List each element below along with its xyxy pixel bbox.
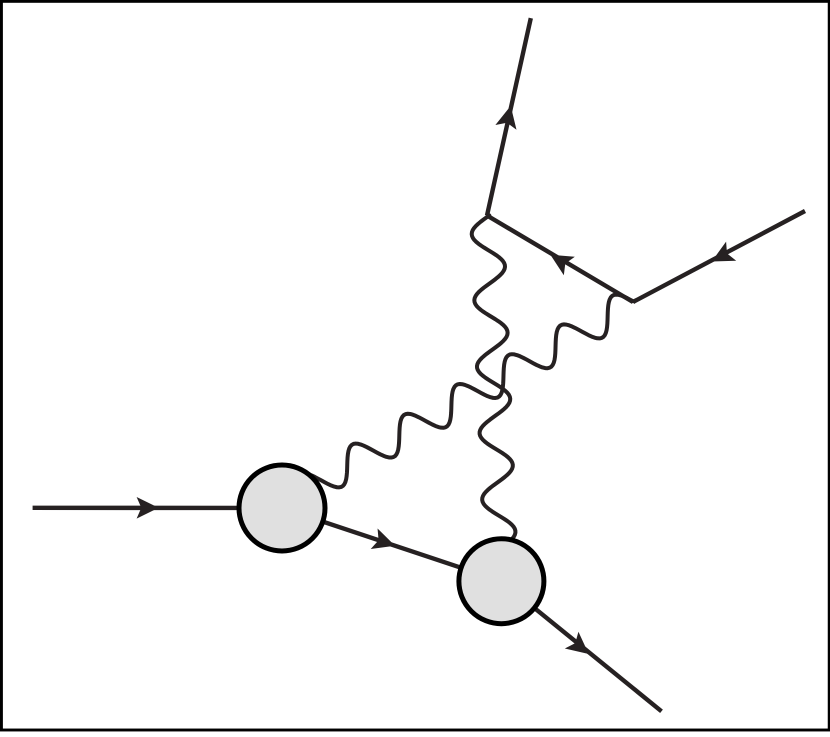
fermion line: from blob B1 to blob B2 xyxy=(282,508,501,581)
photon line: from vertex V1 to blob B2 (wavy) xyxy=(472,215,516,581)
fermion line: incoming electron from left into blob B1 xyxy=(33,506,282,511)
fermion line: incoming electron from right into vertex V2 xyxy=(633,211,805,302)
photon line: from blob B1 to vertex V2 (wavy) xyxy=(294,295,633,509)
blob vertex B1 (shaded circle) xyxy=(239,465,325,551)
fermion propagator: from vertex V2 to vertex V1 xyxy=(487,216,633,303)
blob vertex B2 (shaded circle) xyxy=(459,539,544,624)
fermion line: outgoing from blob B2 to bottom right xyxy=(501,581,661,711)
fermion line: outgoing from vertex V1 to top xyxy=(487,18,531,215)
